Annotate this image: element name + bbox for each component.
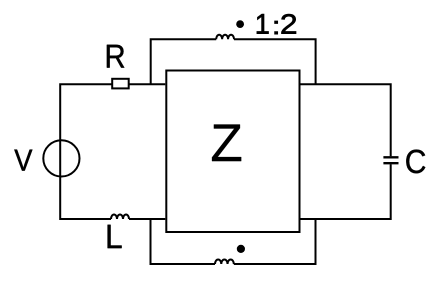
wire bottom loop right xyxy=(234,219,316,264)
inductor coil top xyxy=(216,35,234,40)
transformer secondary winding (bottom loop) xyxy=(151,219,216,264)
wire top-right xyxy=(301,84,391,156)
polarity dot top xyxy=(236,20,244,28)
inductor L xyxy=(111,215,129,220)
polarity dot bottom xyxy=(237,245,245,253)
label V xyxy=(14,150,32,171)
label 1:2 xyxy=(257,14,296,34)
label L xyxy=(108,225,122,248)
transformer primary winding (top loop) xyxy=(151,39,217,84)
label C xyxy=(406,150,425,174)
resistor R xyxy=(112,79,129,89)
wire bottom-left xyxy=(129,218,165,220)
wire top loop right xyxy=(234,39,316,84)
inductor coil bottom xyxy=(215,259,234,264)
wire bottom-right xyxy=(301,164,391,219)
voltage source V1 xyxy=(43,140,79,176)
wire left rail xyxy=(60,84,165,219)
impedance box Z xyxy=(166,71,299,233)
capacitor C xyxy=(383,157,398,163)
label Z xyxy=(212,125,241,162)
label R xyxy=(107,45,124,68)
